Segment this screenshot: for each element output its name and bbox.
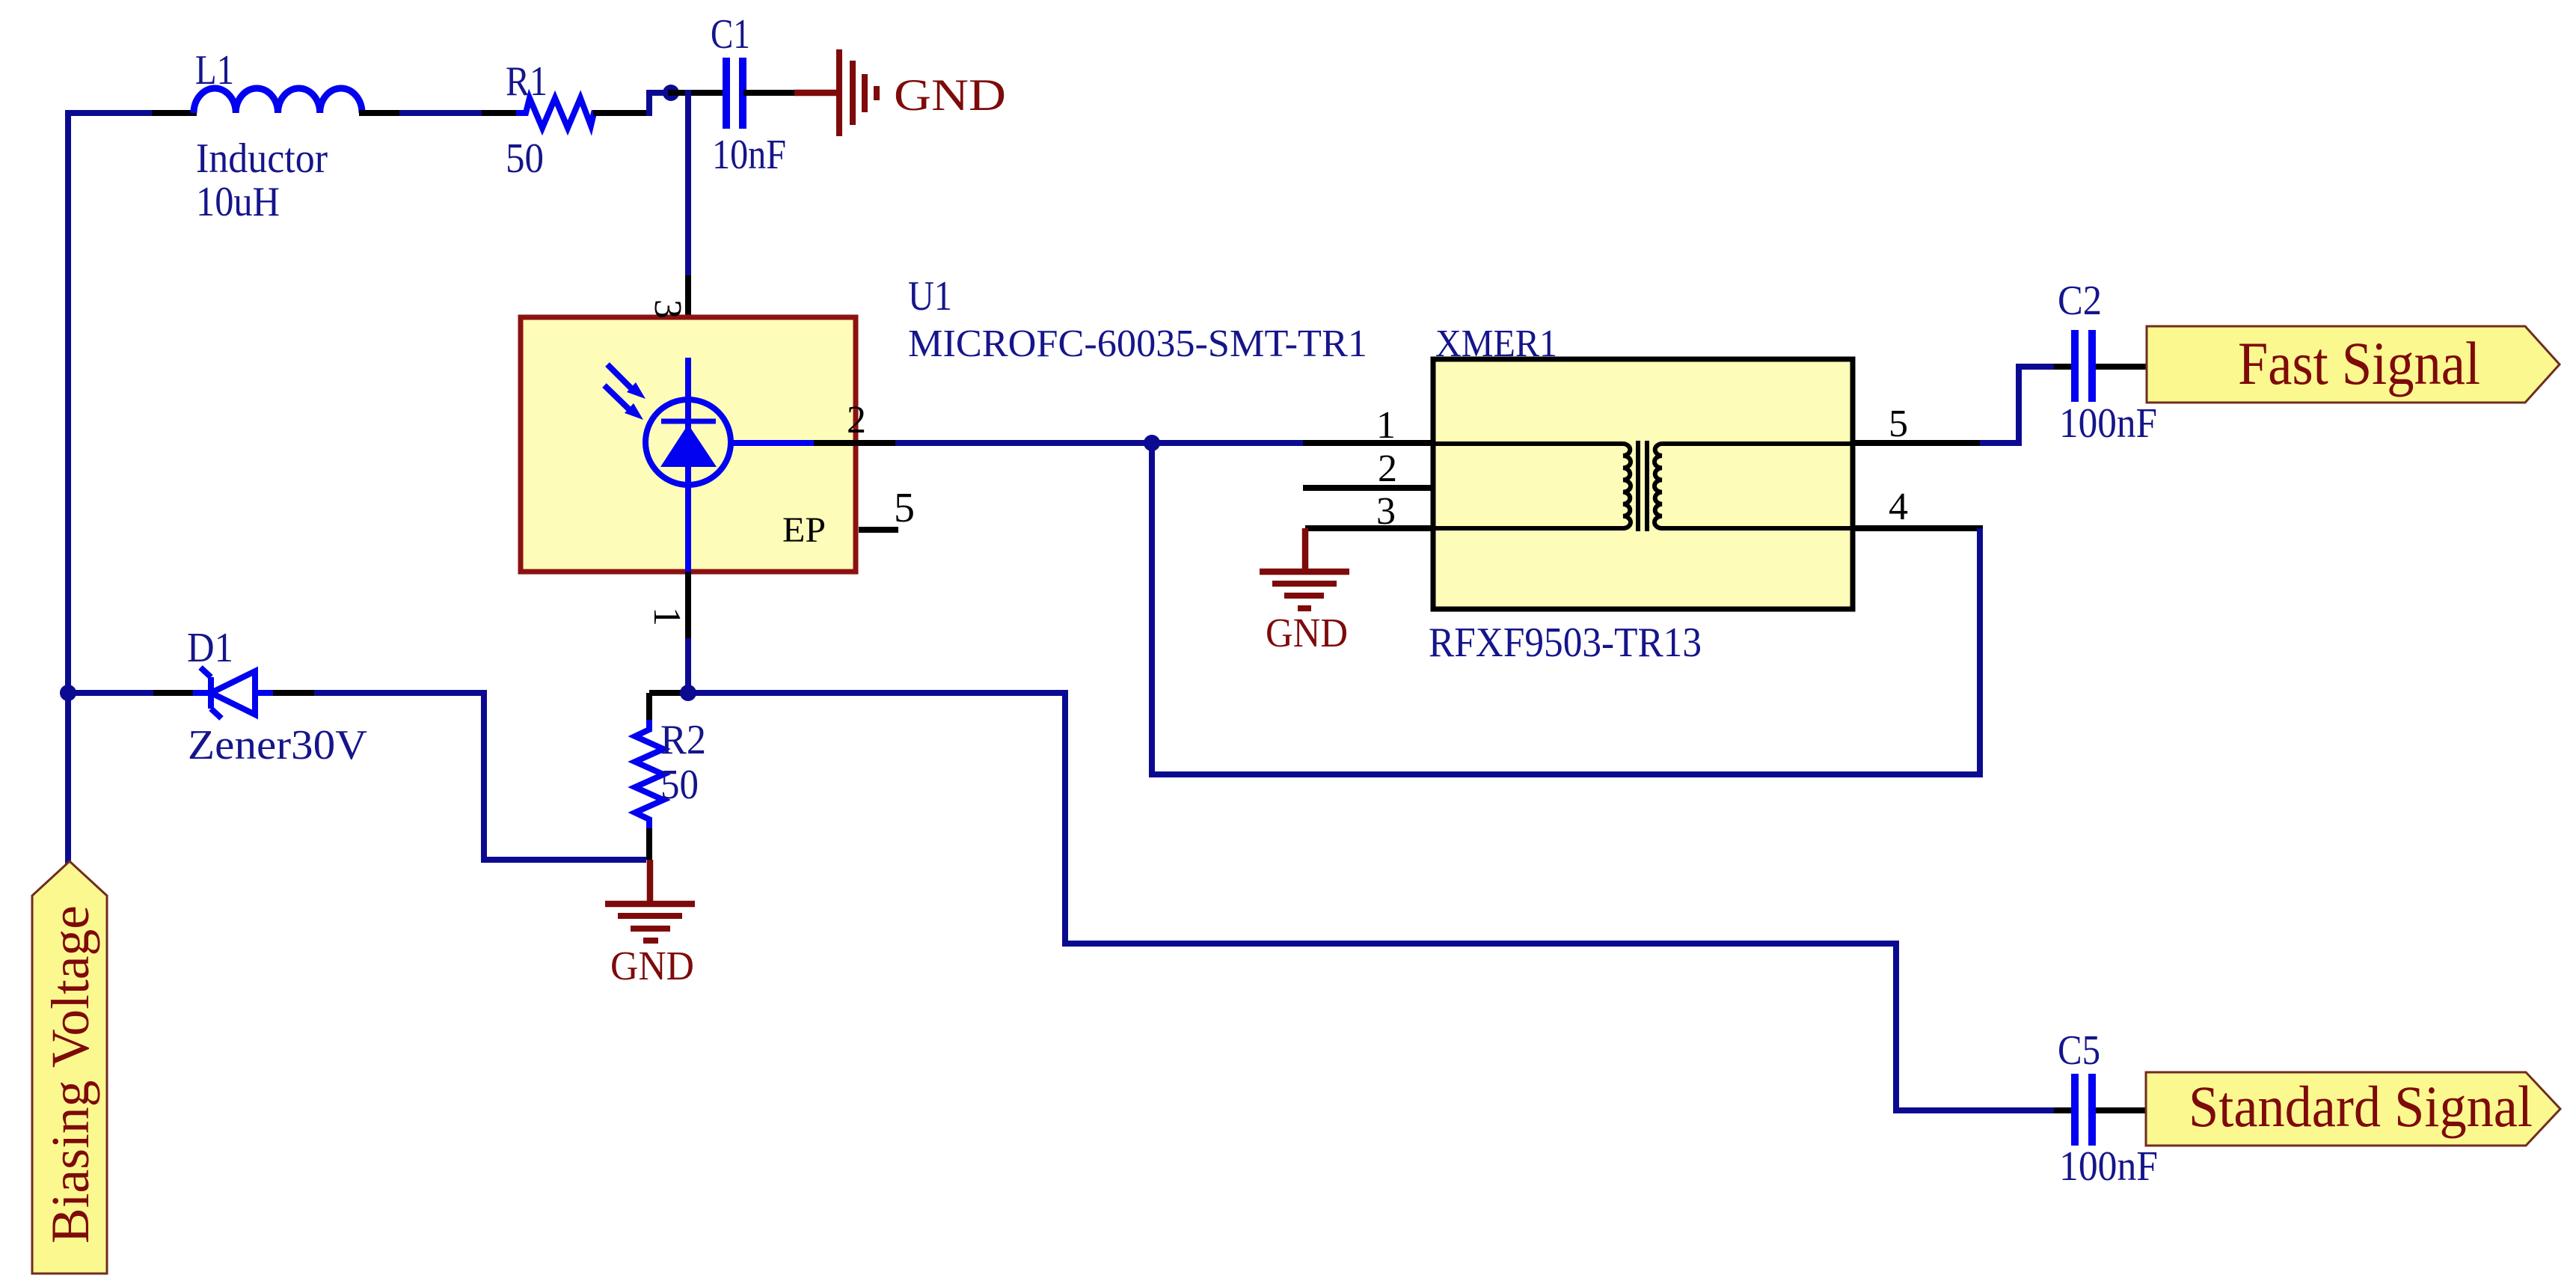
wire pin of L1 left (155, 110, 194, 116)
svg-text:50: 50 (506, 135, 544, 182)
op-amp U1 body (SiPM MICROFC-60035-SMT-TR1 yellow box) (521, 317, 856, 572)
pin 1 of XMER1 (1303, 440, 1431, 446)
resistor R1 (516, 98, 596, 128)
wire biasing rail to D1 (68, 690, 156, 696)
wire D1 to ground leg (314, 693, 646, 860)
transformer primary winding (1623, 444, 1631, 528)
svg-text:Fast Signal: Fast Signal (2238, 329, 2480, 397)
wire C5 left pin (2054, 1107, 2072, 1113)
svg-text:100nF: 100nF (2059, 400, 2157, 447)
transformer secondary bottom lead (1662, 526, 1850, 531)
diode D1 zener (193, 690, 212, 696)
photodiode light arrow 2 (604, 385, 630, 410)
svg-text:GND: GND (610, 943, 694, 988)
capacitor C1 (723, 58, 730, 129)
wire junction to standard signal (688, 693, 2057, 1110)
svg-text:D1: D1 (187, 625, 233, 671)
svg-text:MICROFC-60035-SMT-TR1: MICROFC-60035-SMT-TR1 (908, 322, 1367, 365)
junction node U1 pin1 / R2 / output (680, 685, 696, 701)
pin of D1 left (153, 690, 196, 696)
wire XMER1 pin4 return (1152, 443, 1980, 774)
photodiode symbol vertical lead (685, 361, 691, 572)
photodiode anode lead to pin2 (732, 440, 817, 446)
transformer core (1636, 441, 1640, 531)
junction node pin2 net (1144, 435, 1160, 451)
svg-text:5: 5 (1889, 403, 1908, 445)
pin 5 EP of U1 (859, 527, 898, 533)
pin 2 of XMER1 stub (1303, 485, 1431, 491)
pin 4 of XMER1 (1854, 525, 1983, 531)
transformer primary top lead (1435, 441, 1623, 446)
svg-text:3: 3 (646, 299, 689, 319)
svg-text:GND: GND (894, 70, 1006, 120)
wire C1 right pin (746, 90, 794, 96)
wire top rail to L1 (68, 110, 158, 116)
transformer secondary winding (1655, 444, 1662, 528)
svg-text:4: 4 (1889, 486, 1908, 528)
svg-text:2: 2 (847, 399, 866, 441)
svg-text:L1: L1 (195, 47, 234, 94)
wire pin of R1 right to corner (596, 110, 649, 116)
ground GND at R2 / D1 (647, 860, 654, 902)
pin of R2 top (646, 693, 652, 721)
svg-text:C1: C1 (711, 11, 750, 58)
svg-text:3: 3 (1376, 490, 1396, 533)
port Biasing Voltage flag (32, 861, 107, 1274)
svg-text:50: 50 (660, 762, 699, 808)
svg-text:C2: C2 (2058, 278, 2102, 324)
svg-text:C5: C5 (2058, 1027, 2100, 1074)
svg-text:R2: R2 (660, 717, 706, 763)
photodiode circle (645, 400, 731, 485)
pin 3 of U1 (black stub) (685, 275, 691, 362)
wire biasing-voltage vertical rail (65, 113, 71, 861)
ground GND top (rotated power ground) (794, 90, 837, 97)
svg-text:Inductor: Inductor (196, 135, 328, 182)
svg-text:100nF: 100nF (2059, 1143, 2158, 1190)
transformer XMER1 body (1433, 359, 1853, 609)
transformer primary bottom lead (1435, 526, 1623, 531)
port Standard Signal flag (2146, 1072, 2560, 1146)
wire pin of R1 left (485, 110, 521, 116)
wire C2 right pin (2096, 364, 2148, 370)
junction node at C1 tap (663, 85, 679, 101)
svg-text:5: 5 (894, 485, 915, 531)
svg-text:10uH: 10uH (196, 179, 280, 225)
svg-text:XMER1: XMER1 (1435, 322, 1557, 365)
wire jog up to C1 row (649, 93, 671, 116)
wire R2 top link (649, 690, 688, 696)
wire U1 pin1 to junction (685, 641, 691, 693)
capacitor C2 (2071, 330, 2079, 402)
pin of D1 right (273, 690, 317, 696)
svg-text:U1: U1 (908, 273, 952, 320)
pin 5 of XMER1 (1854, 440, 1983, 446)
wire XMER1 pin5 riser (1980, 367, 2057, 443)
svg-text:GND: GND (1266, 610, 1348, 655)
svg-text:RFXF9503-TR13: RFXF9503-TR13 (1429, 620, 1702, 666)
wire C5 right pin (2096, 1107, 2147, 1113)
svg-text:2: 2 (1378, 447, 1397, 490)
svg-text:1: 1 (1376, 404, 1396, 447)
pin 3 of XMER1 (1305, 525, 1431, 531)
svg-text:Zener30V: Zener30V (188, 722, 367, 768)
svg-text:Standard Signal: Standard Signal (2189, 1074, 2533, 1139)
wire U1 pin2 to XMER1 pin1 (898, 440, 1306, 446)
svg-text:10nF: 10nF (712, 132, 786, 178)
wire pin of L1 right (362, 110, 402, 116)
junction node biasing rail at D1 (60, 685, 76, 701)
wire between L1 and R1 (402, 110, 488, 116)
pin 2 of U1 (814, 440, 898, 446)
port Fast Signal flag (2147, 326, 2560, 403)
resistor R2 (635, 720, 663, 830)
photodiode triangle (660, 424, 717, 467)
wire U1 pin3 net vertical (685, 93, 691, 278)
svg-text:EP: EP (782, 510, 826, 550)
wire C2 left pin (2054, 364, 2072, 370)
photodiode light arrow 1 (607, 364, 632, 389)
ground GND at XMER1 pin3 (1302, 528, 1309, 570)
pin of R2 bottom (646, 828, 652, 860)
inductor L1 (194, 88, 362, 113)
wire C1 left pin (671, 90, 723, 96)
capacitor C5 (2071, 1074, 2079, 1146)
pin 1 of U1 (black stub) (685, 572, 691, 644)
svg-text:Biasing Voltage: Biasing Voltage (40, 905, 100, 1244)
transformer secondary top lead (1662, 441, 1850, 446)
svg-text:R1: R1 (506, 58, 548, 105)
photodiode cathode bar (661, 419, 716, 424)
svg-text:1: 1 (645, 607, 688, 626)
